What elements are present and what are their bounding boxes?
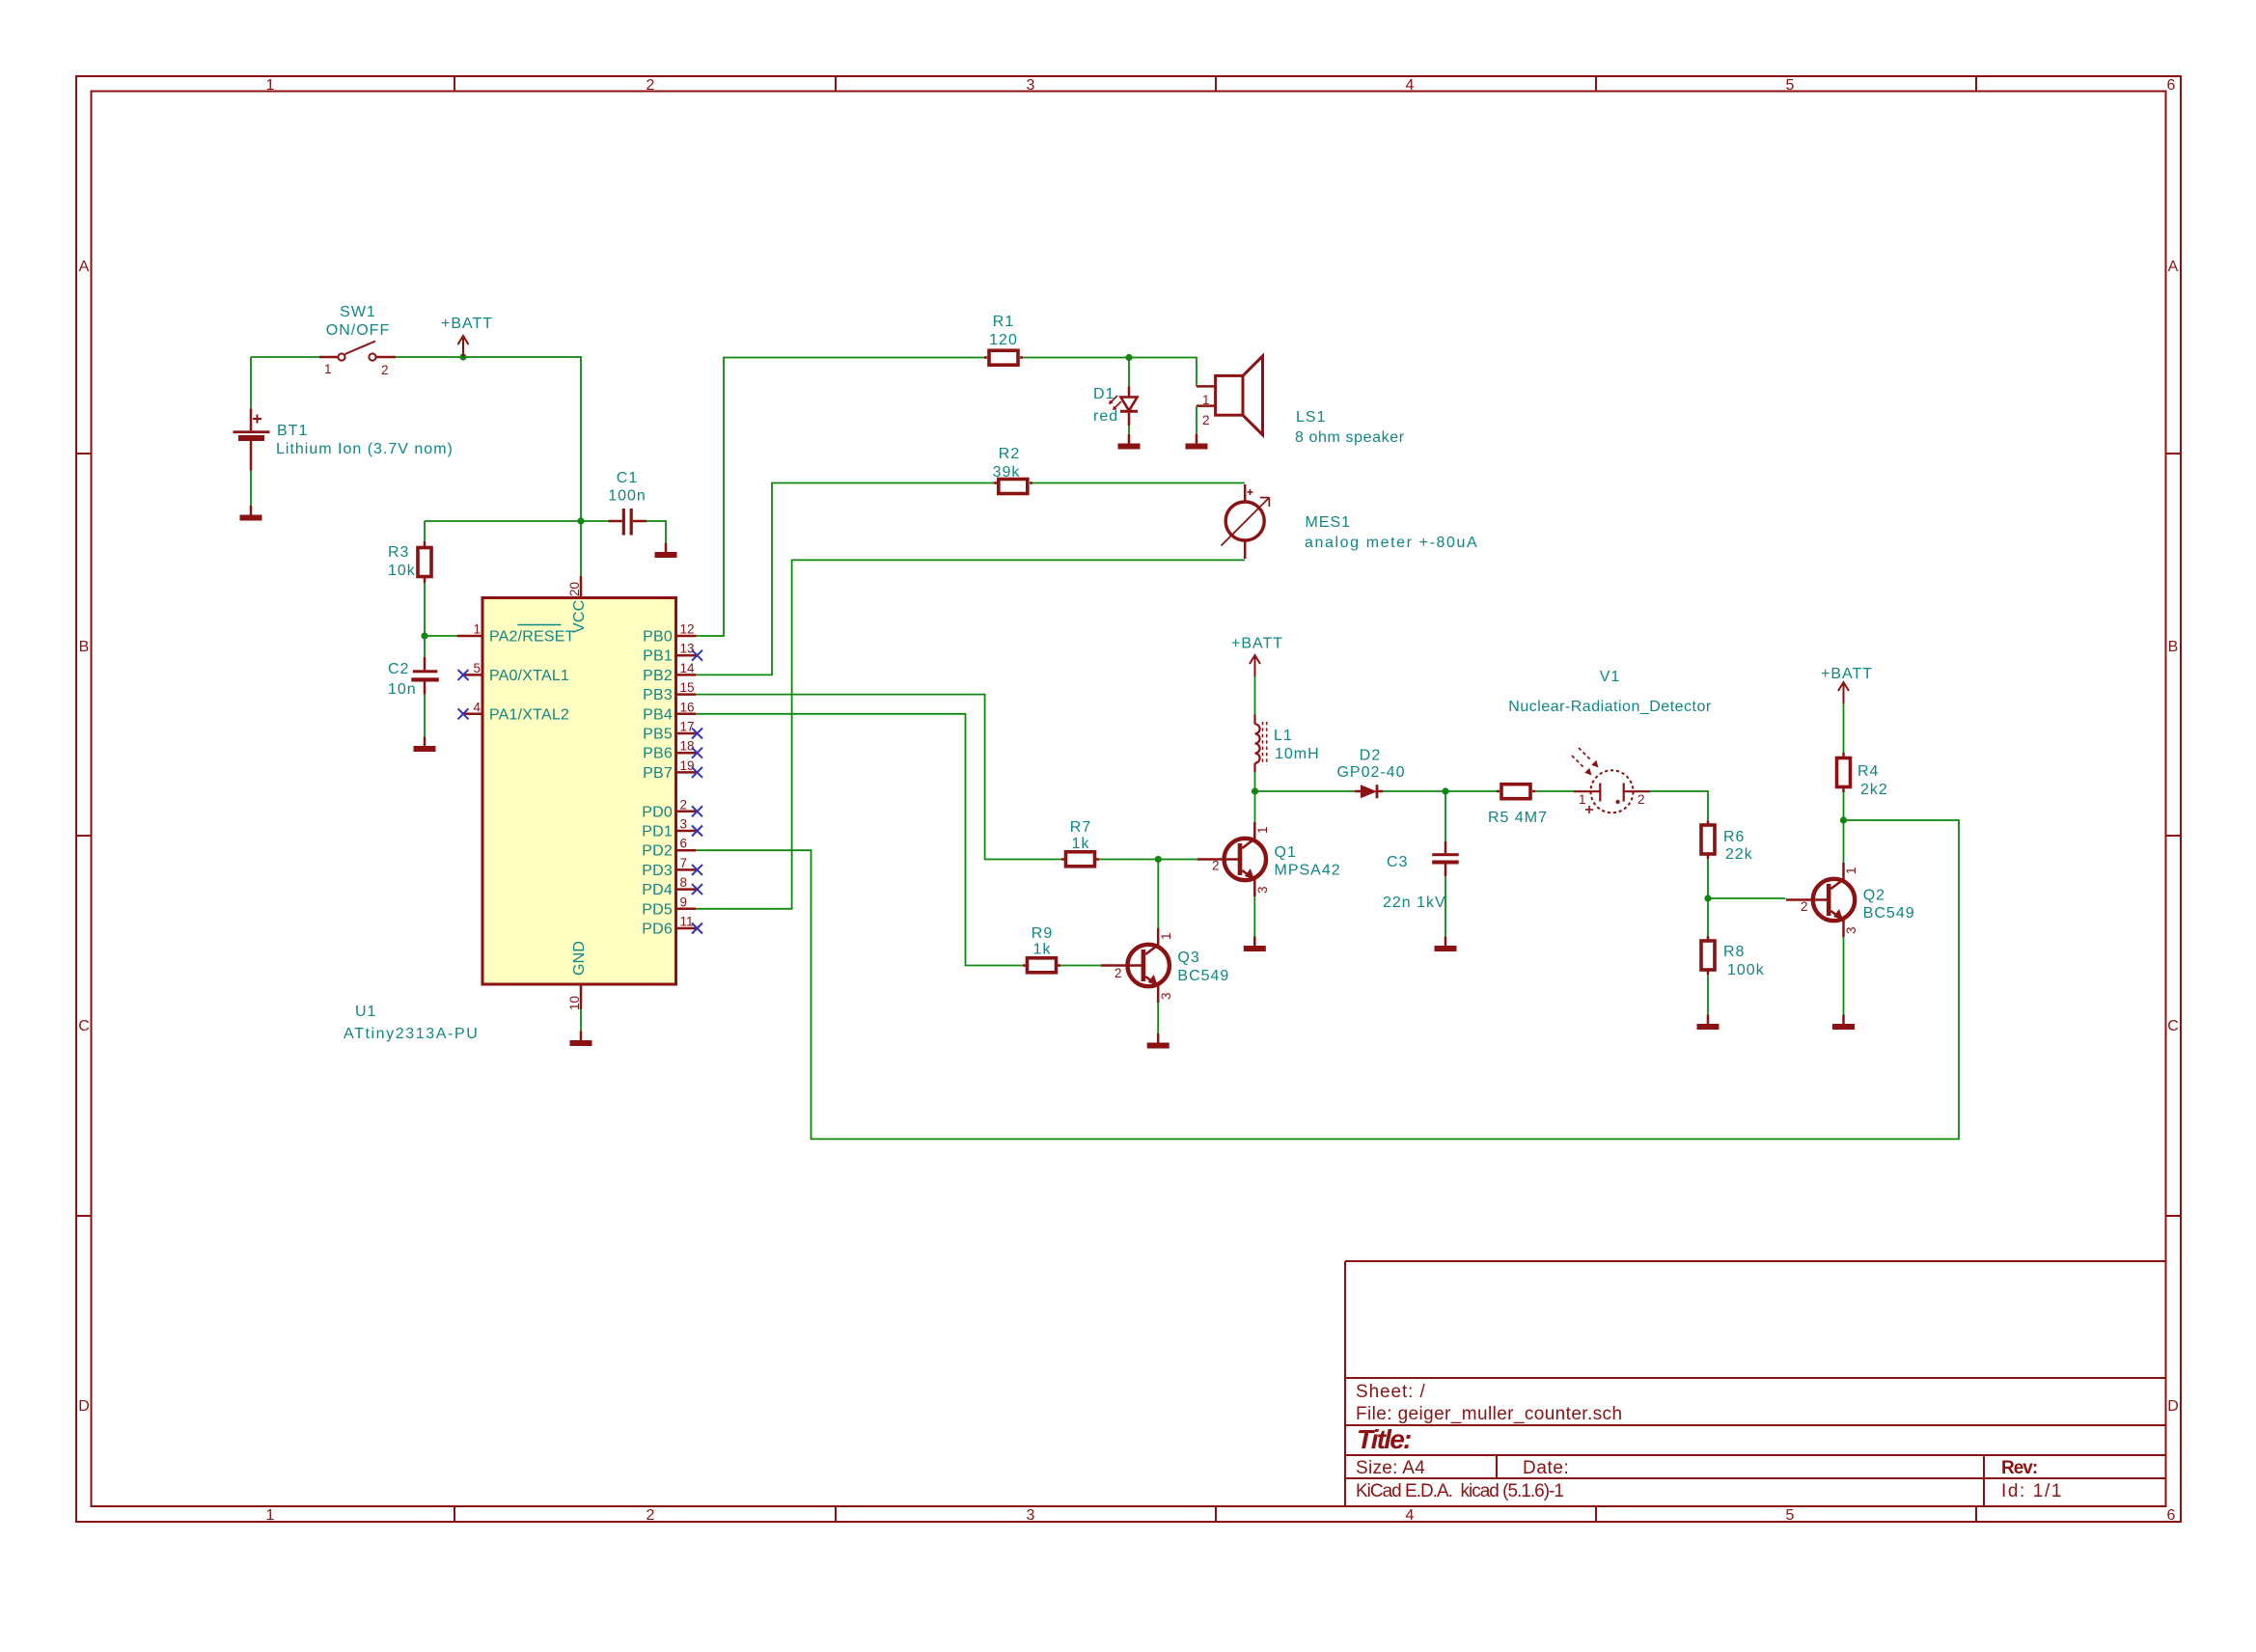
svg-text:11: 11 bbox=[680, 915, 694, 929]
resistor R5 bbox=[1501, 785, 1530, 799]
svg-text:1k: 1k bbox=[1033, 942, 1052, 958]
pin stubs R8 bbox=[1707, 936, 1710, 975]
svg-text:R3: R3 bbox=[388, 544, 409, 561]
svg-text:D: D bbox=[2167, 1398, 2179, 1415]
svg-text:R1: R1 bbox=[993, 314, 1014, 330]
pin 7 PD3 bbox=[642, 856, 702, 879]
junction R1/D1 node bbox=[1125, 354, 1132, 361]
polarity + of V1 bbox=[1585, 806, 1593, 813]
junction L1/D2/Q1 node bbox=[1252, 787, 1258, 794]
svg-text:R8: R8 bbox=[1723, 944, 1745, 960]
svg-text:3: 3 bbox=[1255, 886, 1270, 894]
svg-text:V1: V1 bbox=[1600, 669, 1621, 685]
svg-text:Title:: Title: bbox=[1357, 1424, 1411, 1454]
pin 4 PA1/XTAL2 bbox=[458, 700, 570, 723]
svg-text:39k: 39k bbox=[993, 464, 1021, 481]
pin 14 PB2 bbox=[643, 661, 696, 684]
ground under U1 bbox=[570, 1032, 592, 1047]
title block bbox=[1345, 1261, 2165, 1506]
IC U1 body bbox=[482, 598, 676, 985]
svg-text:19: 19 bbox=[680, 758, 695, 773]
svg-text:2: 2 bbox=[1212, 859, 1220, 873]
svg-text:Size: A4: Size: A4 bbox=[1356, 1458, 1425, 1478]
svg-text:L1: L1 bbox=[1274, 728, 1293, 744]
pin 6 PD2 bbox=[642, 837, 696, 860]
svg-text:17: 17 bbox=[680, 720, 695, 734]
wire PB0 to R1 bbox=[696, 358, 984, 637]
svg-text:1: 1 bbox=[1844, 867, 1858, 874]
wire BT1 to SW1 bbox=[251, 356, 319, 358]
svg-text:2: 2 bbox=[1202, 413, 1210, 427]
svg-text:ON/OFF: ON/OFF bbox=[326, 322, 390, 339]
capacitor C3 bbox=[1432, 841, 1459, 876]
wire D2 to C3 node bbox=[1383, 790, 1445, 792]
wire node to C3 bbox=[1444, 791, 1446, 841]
svg-text:7: 7 bbox=[680, 856, 688, 870]
svg-text:10mH: 10mH bbox=[1275, 746, 1320, 762]
resistor R9 bbox=[1028, 958, 1057, 973]
wire R3 bottom to C2 bbox=[424, 583, 426, 657]
wire SW1 to VCC node bbox=[396, 357, 581, 521]
svg-text:R4: R4 bbox=[1857, 763, 1879, 780]
diode D2 bbox=[1355, 785, 1383, 798]
transistor Q1 MPSA42 bbox=[1197, 822, 1266, 896]
pin stubs R3 bbox=[424, 541, 426, 583]
capacitor C2 bbox=[411, 657, 439, 695]
svg-text:PB6: PB6 bbox=[643, 746, 673, 762]
svg-text:16: 16 bbox=[680, 700, 695, 714]
pin stubs R7 bbox=[1061, 858, 1099, 861]
junction R3/C2/pin1 node bbox=[421, 632, 427, 639]
wire to R3 top bbox=[424, 521, 426, 541]
svg-text:3: 3 bbox=[1159, 992, 1173, 1000]
svg-text:PB2: PB2 bbox=[643, 668, 673, 684]
wire L1 to node bbox=[1254, 772, 1256, 791]
power +BATT near SW1 bbox=[458, 336, 469, 357]
svg-text:R9: R9 bbox=[1032, 925, 1053, 942]
frame row ticks bbox=[76, 454, 2181, 1216]
svg-text:PD3: PD3 bbox=[642, 863, 673, 879]
svg-text:PB1: PB1 bbox=[643, 648, 673, 665]
pin 11 PD6 bbox=[642, 915, 702, 938]
ground under C3 bbox=[1435, 937, 1457, 952]
frame column labels bbox=[266, 77, 2176, 1524]
frame column ticks bbox=[454, 76, 1976, 1522]
svg-text:BC549: BC549 bbox=[1863, 905, 1915, 922]
title block texts bbox=[1356, 1382, 2063, 1501]
svg-text:18: 18 bbox=[680, 739, 695, 754]
svg-text:PA1/XTAL2: PA1/XTAL2 bbox=[489, 706, 569, 723]
power +BATT above L1 bbox=[1250, 655, 1260, 676]
svg-text:1k: 1k bbox=[1072, 836, 1090, 852]
battery BT1 bbox=[234, 408, 270, 470]
svg-text:2: 2 bbox=[1114, 966, 1122, 980]
transistor Q2 BC549 bbox=[1786, 863, 1855, 937]
svg-text:PD4: PD4 bbox=[642, 882, 673, 898]
pin stubs R5 bbox=[1497, 790, 1535, 793]
svg-text:GP02-40: GP02-40 bbox=[1336, 764, 1405, 781]
svg-text:R5 4M7: R5 4M7 bbox=[1488, 810, 1548, 826]
pin 19 PB7 bbox=[643, 758, 702, 782]
svg-text:red: red bbox=[1093, 408, 1118, 425]
svg-text:2: 2 bbox=[680, 797, 688, 812]
wire node to D1 bbox=[1128, 358, 1130, 387]
svg-text:3: 3 bbox=[1844, 926, 1858, 934]
svg-text:B: B bbox=[79, 639, 90, 655]
wire C3 to gnd bbox=[1444, 876, 1446, 937]
ground under Q1 bbox=[1244, 937, 1266, 952]
svg-text:analog meter +-80uA: analog meter +-80uA bbox=[1305, 535, 1478, 551]
pin 12 PB0 bbox=[643, 622, 696, 646]
detector tube V1 bbox=[1572, 748, 1650, 812]
svg-text:4: 4 bbox=[473, 700, 481, 714]
pin 16 PB4 bbox=[643, 700, 696, 723]
svg-text:14: 14 bbox=[680, 661, 696, 675]
svg-text:KiCad E.D.A. kicad (5.1.6)-1: KiCad E.D.A. kicad (5.1.6)-1 bbox=[1356, 1481, 1563, 1501]
svg-text:PA0/XTAL1: PA0/XTAL1 bbox=[489, 668, 569, 684]
svg-text:1: 1 bbox=[266, 77, 275, 94]
svg-text:6: 6 bbox=[2167, 1507, 2176, 1524]
wire node to R8 bbox=[1707, 898, 1709, 936]
wire R6 to node bbox=[1707, 859, 1709, 898]
svg-text:2: 2 bbox=[1637, 792, 1645, 807]
svg-text:MPSA42: MPSA42 bbox=[1275, 863, 1341, 879]
svg-text:6: 6 bbox=[680, 837, 688, 851]
svg-text:PB4: PB4 bbox=[643, 706, 673, 723]
LED D1 bbox=[1109, 386, 1138, 426]
svg-text:C2: C2 bbox=[388, 661, 409, 677]
svg-text:1: 1 bbox=[1202, 393, 1210, 407]
svg-text:R2: R2 bbox=[999, 446, 1020, 462]
svg-text:R7: R7 bbox=[1070, 819, 1091, 836]
svg-text:6: 6 bbox=[2167, 77, 2176, 94]
wire PD2 to Q2 collector node bbox=[696, 820, 1959, 1139]
svg-text:U1: U1 bbox=[355, 1004, 376, 1020]
svg-text:Q2: Q2 bbox=[1863, 888, 1885, 904]
pin 15 PB3 bbox=[643, 680, 696, 703]
svg-text:C: C bbox=[2167, 1018, 2179, 1034]
pin 18 PB6 bbox=[643, 739, 702, 762]
wire C2 to gnd bbox=[424, 695, 426, 737]
wire R4 to node bbox=[1843, 792, 1845, 820]
junction R4/Q2 node bbox=[1840, 816, 1847, 823]
pin 9 PD5 bbox=[642, 895, 696, 918]
svg-text:PD0: PD0 bbox=[642, 804, 673, 820]
wire Q3 emitter to gnd bbox=[1157, 1003, 1159, 1033]
wire R1 to LS1 pin1 bbox=[1023, 358, 1197, 387]
svg-text:22n 1kV: 22n 1kV bbox=[1383, 895, 1446, 911]
pin 3 PD1 bbox=[642, 817, 702, 840]
svg-text:4: 4 bbox=[1406, 1507, 1415, 1524]
ground under BT1 bbox=[240, 506, 262, 521]
wire PD5 to meter bbox=[696, 560, 1245, 908]
resistor R8 bbox=[1701, 941, 1715, 970]
svg-text:8: 8 bbox=[680, 875, 688, 890]
wire V1 to R6 bbox=[1650, 791, 1708, 820]
pin stubs R2 bbox=[994, 482, 1032, 484]
svg-text:PD1: PD1 bbox=[642, 824, 673, 840]
wire PB2 to R2 bbox=[696, 483, 994, 675]
svg-text:100k: 100k bbox=[1727, 962, 1765, 978]
pin 1 PA2/RESET bbox=[457, 622, 575, 646]
svg-text:SW1: SW1 bbox=[340, 304, 376, 320]
ground under C2 bbox=[414, 737, 436, 753]
wire node to R5 bbox=[1445, 790, 1497, 792]
svg-text:Q3: Q3 bbox=[1177, 950, 1199, 966]
svg-text:PA2/RESET: PA2/RESET bbox=[489, 629, 575, 646]
svg-text:1: 1 bbox=[473, 622, 481, 637]
pin stubs R6 bbox=[1707, 820, 1710, 859]
svg-text:+BATT: +BATT bbox=[1821, 666, 1873, 682]
transistor Q3 BC549 bbox=[1101, 928, 1169, 1003]
meter MES1 bbox=[1222, 484, 1270, 559]
wire R8 to gnd bbox=[1707, 975, 1709, 1015]
wire node to C1 bbox=[581, 520, 609, 522]
svg-text:8 ohm speaker: 8 ohm speaker bbox=[1295, 429, 1405, 446]
svg-text:2: 2 bbox=[381, 363, 389, 377]
pin 2 PD0 bbox=[642, 797, 702, 820]
svg-text:Id: 1/1: Id: 1/1 bbox=[2001, 1481, 2063, 1501]
junction +BATT node bbox=[459, 353, 466, 360]
svg-text:20: 20 bbox=[567, 582, 582, 596]
svg-text:+BATT: +BATT bbox=[1231, 636, 1283, 652]
wire R9 to Q3 base bbox=[1060, 965, 1101, 967]
ground under C1 bbox=[655, 543, 677, 559]
svg-text:A: A bbox=[79, 259, 90, 275]
wire +BATT to R4 bbox=[1843, 703, 1845, 753]
ground under R8 bbox=[1697, 1015, 1720, 1031]
frame row labels bbox=[78, 259, 2179, 1415]
ground under Q2 bbox=[1832, 1015, 1855, 1031]
svg-text:PD2: PD2 bbox=[642, 843, 673, 860]
svg-text:3: 3 bbox=[1027, 77, 1035, 94]
svg-text:D1: D1 bbox=[1093, 386, 1114, 402]
wire R5 to V1 bbox=[1535, 790, 1574, 792]
svg-text:13: 13 bbox=[680, 642, 695, 656]
capacitor C1 bbox=[609, 509, 647, 536]
svg-text:Date:: Date: bbox=[1523, 1458, 1569, 1478]
svg-text:2: 2 bbox=[647, 77, 655, 94]
svg-text:Sheet: /: Sheet: / bbox=[1356, 1382, 1426, 1402]
wire PB4 to R9 bbox=[696, 714, 1023, 966]
svg-text:12: 12 bbox=[680, 622, 695, 637]
svg-text:MES1: MES1 bbox=[1306, 514, 1352, 531]
svg-text:10: 10 bbox=[567, 996, 582, 1010]
svg-text:C3: C3 bbox=[1387, 854, 1408, 870]
pin 13 PB1 bbox=[643, 642, 702, 665]
wire node to D2 bbox=[1255, 790, 1356, 792]
wire R7 to Q1 base bbox=[1099, 859, 1197, 861]
svg-text:GND: GND bbox=[571, 941, 588, 976]
inductor L1 bbox=[1255, 715, 1267, 773]
resistor R4 bbox=[1837, 758, 1851, 787]
svg-text:5: 5 bbox=[473, 661, 481, 675]
pin 17 PB5 bbox=[643, 720, 702, 743]
svg-text:1: 1 bbox=[1579, 792, 1586, 807]
svg-text:Lithium Ion (3.7V nom): Lithium Ion (3.7V nom) bbox=[276, 441, 454, 457]
pin 8 PD4 bbox=[642, 875, 702, 898]
svg-text:10k: 10k bbox=[388, 563, 416, 579]
svg-text:C1: C1 bbox=[617, 470, 638, 486]
svg-text:Rev:: Rev: bbox=[2001, 1458, 2037, 1478]
svg-text:PB7: PB7 bbox=[643, 765, 673, 782]
junction R6/R8/Q2 node bbox=[1704, 895, 1711, 901]
svg-text:1: 1 bbox=[324, 362, 332, 376]
wire R2 to MES1 bbox=[1032, 482, 1245, 484]
svg-text:3: 3 bbox=[1027, 1507, 1035, 1524]
junction R7/Q1/Q3 node bbox=[1155, 856, 1162, 863]
junction D2/C3/R5 node bbox=[1442, 787, 1448, 794]
svg-text:A: A bbox=[2168, 259, 2179, 275]
resistor R2 bbox=[999, 480, 1028, 494]
resistor R1 bbox=[989, 350, 1018, 365]
wire node to Q2 collector bbox=[1843, 820, 1845, 863]
svg-text:5: 5 bbox=[1786, 77, 1795, 94]
wire C1 to gnd bbox=[647, 521, 666, 543]
svg-text:B: B bbox=[2168, 639, 2179, 655]
wire D1 to gnd bbox=[1128, 426, 1130, 434]
svg-text:BC549: BC549 bbox=[1177, 968, 1229, 984]
wire Q1 emitter to gnd bbox=[1253, 896, 1255, 937]
svg-text:C: C bbox=[78, 1018, 90, 1034]
svg-text:22k: 22k bbox=[1725, 846, 1753, 863]
svg-text:Q1: Q1 bbox=[1275, 844, 1297, 861]
wire node to Q3 collector bbox=[1157, 860, 1159, 929]
resistor R3 bbox=[418, 548, 431, 577]
svg-text:R6: R6 bbox=[1723, 829, 1745, 845]
svg-text:BT1: BT1 bbox=[277, 423, 308, 439]
pin stubs R4 bbox=[1842, 753, 1845, 792]
resistor R6 bbox=[1701, 825, 1715, 854]
wire battery top bbox=[250, 357, 252, 408]
ground under LS1 bbox=[1186, 434, 1208, 450]
wire node to pin1 bbox=[425, 635, 457, 637]
wire PB3 to R7 bbox=[696, 695, 1061, 860]
svg-text:4: 4 bbox=[1406, 77, 1415, 94]
svg-text:PB5: PB5 bbox=[643, 727, 673, 743]
pin 10 GND stub bbox=[580, 984, 583, 1009]
svg-text:1: 1 bbox=[266, 1507, 275, 1524]
resistor R7 bbox=[1066, 852, 1095, 867]
power +BATT above R4 bbox=[1838, 682, 1849, 703]
wire to VCC pin bbox=[580, 521, 582, 576]
pin 5 PA0/XTAL1 bbox=[458, 661, 570, 684]
svg-text:15: 15 bbox=[680, 680, 695, 695]
pin stubs R9 bbox=[1023, 964, 1060, 967]
svg-text:PD5: PD5 bbox=[642, 901, 673, 918]
wire battery bottom bbox=[250, 471, 252, 507]
svg-text:Nuclear-Radiation_Detector: Nuclear-Radiation_Detector bbox=[1508, 699, 1712, 715]
svg-text:2k2: 2k2 bbox=[1860, 782, 1888, 798]
svg-text:5: 5 bbox=[1786, 1507, 1795, 1524]
wire IC to gnd bbox=[580, 1009, 582, 1032]
svg-text:10n: 10n bbox=[388, 681, 417, 698]
svg-text:3: 3 bbox=[680, 817, 688, 832]
svg-text:D: D bbox=[78, 1398, 90, 1415]
sheet inner frame bbox=[92, 92, 2166, 1507]
svg-text:1: 1 bbox=[1159, 932, 1173, 940]
wire +BATT to L1 bbox=[1254, 676, 1256, 715]
svg-text:120: 120 bbox=[989, 332, 1018, 348]
wire R3 top node bbox=[425, 520, 581, 522]
wire node to Q1 collector bbox=[1254, 791, 1256, 822]
svg-text:PB0: PB0 bbox=[643, 629, 673, 646]
svg-text:1: 1 bbox=[1255, 826, 1270, 834]
svg-text:File: geiger_muller_counter.sc: File: geiger_muller_counter.sch bbox=[1356, 1404, 1622, 1424]
svg-text:PD6: PD6 bbox=[642, 922, 673, 938]
ground under Q3 bbox=[1147, 1033, 1169, 1049]
svg-text:D2: D2 bbox=[1360, 748, 1381, 764]
switch SW1 bbox=[319, 342, 396, 361]
wire Q2 emitter to gnd bbox=[1843, 937, 1845, 1015]
svg-text:PB3: PB3 bbox=[643, 687, 673, 703]
speaker LS1 bbox=[1197, 356, 1263, 435]
wire LS1 pin2 to gnd bbox=[1196, 406, 1197, 434]
svg-text:ATtiny2313A-PU: ATtiny2313A-PU bbox=[344, 1026, 479, 1042]
svg-text:+BATT: +BATT bbox=[441, 316, 493, 332]
wire node to Q2 base bbox=[1708, 897, 1786, 899]
svg-text:LS1: LS1 bbox=[1296, 409, 1326, 426]
pin 20 VCC stub bbox=[580, 576, 583, 598]
junction VCC/C1 node bbox=[577, 517, 584, 524]
ground under D1 bbox=[1118, 434, 1141, 450]
svg-text:2: 2 bbox=[1801, 899, 1808, 914]
svg-text:2: 2 bbox=[647, 1507, 655, 1524]
svg-text:9: 9 bbox=[680, 895, 688, 909]
pin stubs R1 bbox=[984, 356, 1024, 359]
svg-text:100n: 100n bbox=[608, 488, 647, 505]
